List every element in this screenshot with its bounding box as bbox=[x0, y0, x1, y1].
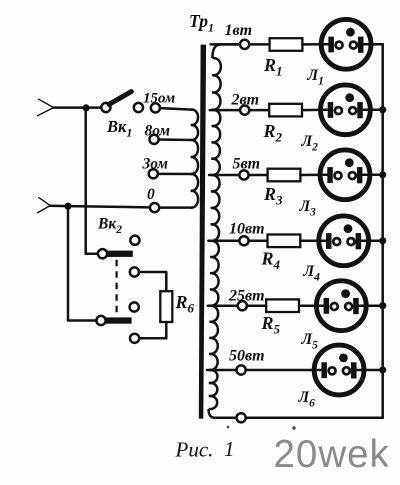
switch Вк2 upper throw contact to R6 bbox=[130, 267, 139, 276]
resistor R5 bbox=[266, 299, 299, 312]
wire R1 to lamp Л1 bbox=[302, 43, 328, 46]
wire lamp Л4 to bus bbox=[361, 240, 383, 243]
lamp Л1 outer bbox=[321, 19, 371, 69]
lamp Л4 outer bbox=[319, 216, 369, 266]
transformer primary winding loops bbox=[191, 110, 198, 208]
tap terminal 8ом bbox=[150, 135, 159, 144]
lamp Л2 right contact circle bbox=[349, 107, 356, 114]
lamp Л5 top pin dot bbox=[341, 289, 350, 298]
svg-text:R4: R4 bbox=[261, 249, 281, 273]
tap terminal 50вm bbox=[237, 365, 246, 374]
secondary bottom terminal bbox=[237, 413, 246, 422]
wire lamp Л2 to bus bbox=[363, 109, 383, 112]
svg-text:2вm: 2вm bbox=[231, 92, 260, 109]
lamp Л6 outer bbox=[314, 345, 364, 395]
tap terminal 5вm bbox=[239, 170, 248, 179]
resistor R4 bbox=[268, 235, 301, 248]
junction input2/branch B bbox=[64, 203, 71, 210]
svg-text:R2: R2 bbox=[263, 121, 283, 145]
wire tap 0 to primary bbox=[159, 206, 192, 209]
wire Вк2 contact to R6 top bbox=[139, 272, 166, 291]
wire secondary tap 25вm to terminal bbox=[208, 304, 238, 307]
input terminal 2 lower barb bbox=[38, 206, 51, 213]
svg-text:Л4: Л4 bbox=[303, 263, 321, 284]
svg-text:Л6: Л6 bbox=[298, 389, 316, 410]
lamp Л2 top pin dot bbox=[345, 93, 354, 102]
wire tap 8ом to primary bbox=[159, 138, 192, 141]
lamp Л4 top pin dot bbox=[344, 224, 353, 233]
junction bus/Л3 bbox=[379, 171, 386, 178]
resistor R6 bbox=[160, 291, 172, 322]
wire tap 15ом to primary bbox=[160, 108, 192, 110]
switch Вк1 pole bbox=[101, 103, 110, 112]
svg-text:15ом: 15ом bbox=[143, 91, 175, 107]
lamp Л5 outer bbox=[316, 281, 366, 331]
wire tap to R5 bbox=[247, 304, 266, 307]
svg-text:Л5: Л5 bbox=[301, 331, 319, 352]
wire branch A down to Вк2 upper pole bbox=[86, 108, 98, 254]
junction bus/Л2 bbox=[379, 106, 386, 113]
speck bbox=[292, 426, 295, 429]
lamp Л6 top pin dot bbox=[339, 354, 348, 363]
lamp Л4 left contact bar bbox=[326, 233, 332, 249]
svg-text:10вm: 10вm bbox=[229, 221, 265, 238]
lamp Л4 right contact bar bbox=[356, 233, 362, 249]
tap terminal 15ом bbox=[151, 103, 160, 112]
lamp Л6 left contact circle bbox=[329, 367, 336, 374]
wire input 1 to switch Вк1 bbox=[54, 106, 102, 109]
tap terminal 25вm bbox=[238, 301, 247, 310]
junction input1/branch A bbox=[83, 104, 90, 111]
junction bus/Л4 bbox=[379, 237, 386, 244]
transformer Тр1 core bbox=[199, 45, 206, 419]
wire R3 to lamp Л3 bbox=[300, 174, 327, 177]
input terminal 1 lower barb bbox=[38, 108, 54, 116]
svg-text:R1: R1 bbox=[263, 55, 283, 79]
svg-text:50вm: 50вm bbox=[229, 348, 265, 365]
lamp Л3 right contact circle bbox=[349, 172, 356, 179]
wire tap to R1 bbox=[249, 43, 269, 46]
wire tap 3ом to primary bbox=[158, 173, 192, 176]
transformer secondary winding loops bbox=[209, 44, 240, 417]
switch Вк2 upper throw contact (open) bbox=[130, 236, 139, 245]
input terminal 2 upper barb bbox=[39, 198, 50, 206]
svg-text:Тр1: Тр1 bbox=[189, 11, 214, 35]
lamp Л3 top pin dot bbox=[345, 158, 354, 167]
wire lamp Л3 to bus bbox=[362, 174, 382, 177]
svg-text:Рис.: Рис. bbox=[175, 438, 214, 462]
wire tap to R3 bbox=[249, 174, 268, 177]
lamp Л1 left contact circle bbox=[336, 42, 343, 49]
svg-text:1вm: 1вm bbox=[225, 22, 253, 39]
lamp Л6 right contact bar bbox=[351, 362, 357, 378]
wire secondary tap 2вm to terminal bbox=[210, 109, 240, 112]
svg-text:Вк1: Вк1 bbox=[106, 117, 132, 140]
resistor R1 bbox=[270, 38, 303, 51]
lamp Л2 outer bbox=[321, 85, 371, 135]
svg-text:Л2: Л2 bbox=[301, 133, 319, 154]
wire R4 to lamp Л4 bbox=[300, 240, 326, 243]
lamp Л2 left contact circle bbox=[335, 107, 342, 114]
svg-text:25вm: 25вm bbox=[228, 288, 265, 305]
svg-text:R5: R5 bbox=[261, 313, 281, 337]
lamp Л1 left contact bar bbox=[328, 37, 334, 53]
lamp Л5 left contact bar bbox=[324, 298, 330, 314]
wire secondary bottom to bus bbox=[246, 416, 383, 419]
tap terminal 1вm bbox=[240, 40, 249, 49]
svg-text:3ом: 3ом bbox=[142, 156, 169, 173]
svg-text:R6: R6 bbox=[175, 292, 195, 316]
switch Вк2 lower throw contact to R6 bbox=[130, 334, 139, 343]
wire R5 to lamp Л5 bbox=[299, 304, 324, 307]
bus wire right bbox=[381, 44, 384, 417]
tap terminal 3ом bbox=[149, 169, 158, 178]
wire lamp Л6 to bus bbox=[356, 369, 382, 372]
svg-text:5вm: 5вm bbox=[233, 156, 261, 173]
input terminal 1 upper barb bbox=[39, 99, 54, 107]
svg-text:8ом: 8ом bbox=[145, 123, 171, 140]
wire lamp Л1 to bus bbox=[363, 43, 382, 46]
lamp Л2 right contact bar bbox=[357, 102, 363, 118]
wire secondary tap 5вm to terminal bbox=[209, 174, 239, 177]
lamp Л1 top pin dot bbox=[346, 28, 355, 37]
switch Вк2 lower blade bbox=[105, 317, 132, 323]
switch Вк2 lower throw contact (open) bbox=[130, 302, 139, 311]
lamp Л3 left contact bar bbox=[327, 167, 333, 183]
lamp Л4 right contact circle bbox=[348, 238, 355, 245]
wire secondary tap 10вm to terminal bbox=[208, 240, 239, 243]
lamp Л3 outer bbox=[320, 150, 370, 200]
wire tap to lamp Л6 bbox=[246, 369, 322, 372]
tap terminal 0 bbox=[150, 203, 159, 212]
speck bbox=[227, 426, 230, 429]
lamp Л1 right contact circle bbox=[350, 42, 357, 49]
wire secondary tap 1вm to terminal bbox=[211, 43, 240, 46]
svg-text:Вк2: Вк2 bbox=[97, 216, 122, 237]
wire tap to R4 bbox=[249, 240, 268, 243]
switch Вк2 lower pole bbox=[96, 316, 105, 325]
lamp Л3 left contact circle bbox=[335, 172, 342, 179]
svg-text:R3: R3 bbox=[263, 184, 283, 208]
lamp Л4 left contact circle bbox=[333, 238, 340, 245]
tap terminal 10вm bbox=[239, 236, 248, 245]
wire R2 to lamp Л2 bbox=[302, 109, 328, 112]
resistor R2 bbox=[269, 104, 302, 117]
tap terminal 2вm bbox=[240, 106, 249, 115]
lamp Л6 right contact circle bbox=[343, 367, 350, 374]
svg-text:Л3: Л3 bbox=[299, 198, 317, 219]
lamp Л1 right contact bar bbox=[358, 37, 364, 53]
wire tap to R2 bbox=[249, 109, 269, 112]
svg-text:Л1: Л1 bbox=[307, 67, 324, 88]
resistor R3 bbox=[268, 169, 301, 182]
switch Вк1 lever bbox=[109, 92, 131, 105]
lamp Л2 left contact bar bbox=[328, 102, 334, 118]
switch Вк2 mechanical link (dashed) bbox=[115, 260, 117, 316]
wire R6 bottom to Вк2 contact bbox=[139, 322, 166, 338]
lamp Л6 left contact bar bbox=[321, 362, 327, 378]
junction bus/Л6 bbox=[379, 366, 386, 373]
lamp Л3 right contact bar bbox=[357, 167, 363, 183]
wire lamp Л5 to bus bbox=[359, 304, 383, 307]
svg-text:1: 1 bbox=[224, 437, 235, 461]
svg-text:0: 0 bbox=[147, 186, 155, 203]
wire secondary tap 50вm to terminal bbox=[207, 369, 237, 372]
lamp Л5 right contact circle bbox=[345, 303, 352, 310]
lamp Л5 left contact circle bbox=[331, 303, 338, 310]
wire branch B down to Вк2 lower pole bbox=[68, 206, 96, 320]
wire input 2 to tap 0 bbox=[50, 206, 150, 208]
switch Вк1 throw contact bbox=[134, 103, 143, 112]
switch Вк2 upper pole bbox=[98, 249, 107, 258]
svg-text:20wek: 20wek bbox=[274, 433, 390, 476]
switch Вк2 upper blade bbox=[106, 251, 133, 257]
lamp Л5 right contact bar bbox=[353, 298, 359, 314]
junction bus/Л5 bbox=[379, 302, 386, 309]
